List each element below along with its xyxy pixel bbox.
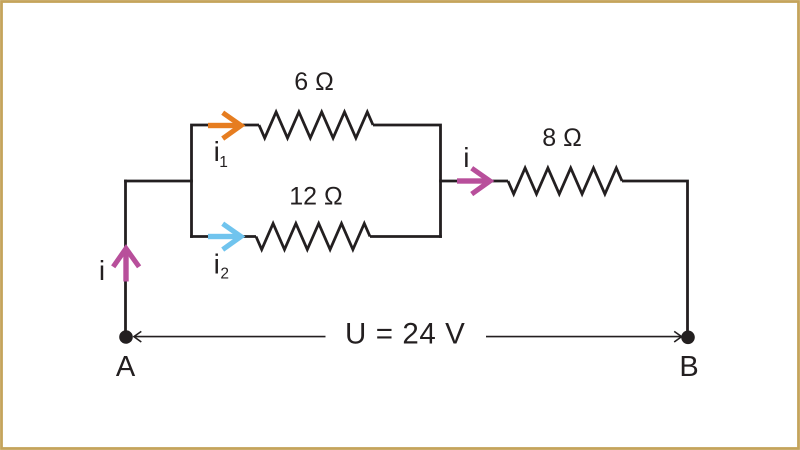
wire: left outer vertical down to node A [124, 180, 127, 336]
wire: parallel-section left vertical + top branch lead [192, 125, 260, 238]
wire: bottom branch left lead [190, 235, 256, 238]
svg-text:6 Ω: 6 Ω [294, 68, 334, 96]
svg-text:i: i [99, 255, 105, 286]
wire: left feed horizontal at mid level [124, 180, 193, 183]
wire: right lead + right outer vertical down to node B [622, 181, 688, 336]
node B dot [681, 331, 695, 345]
measurement arrow line right (to node B) [486, 331, 682, 342]
measurement arrow line left (to node A) [134, 331, 326, 342]
svg-text:i: i [463, 142, 469, 173]
current arrow i (magenta, upward) on left vertical wire [113, 249, 139, 282]
svg-text:B: B [679, 351, 698, 383]
current arrow i1 (orange) on top branch [208, 113, 241, 139]
svg-text:8 Ω: 8 Ω [542, 124, 582, 152]
svg-text:A: A [116, 351, 136, 383]
current arrow i (magenta) on mid branch [457, 168, 490, 194]
svg-text:1: 1 [219, 154, 228, 171]
wire: bottom branch right lead [370, 235, 442, 238]
svg-text:2: 2 [220, 266, 229, 283]
resistor R3 8-ohm zigzag [508, 168, 622, 194]
wire: top branch right lead + parallel-section right vertical [373, 125, 441, 238]
resistor R2 12-ohm zigzag [256, 224, 370, 250]
wire: mid branch from parallel section to 8-ohm resistor [439, 180, 508, 183]
svg-text:i: i [214, 249, 220, 280]
svg-text:U = 24 V: U = 24 V [345, 318, 465, 351]
current arrow i2 (light blue) on bottom branch [208, 224, 241, 250]
resistor R1 6-ohm zigzag [259, 112, 373, 138]
node A dot [119, 330, 133, 344]
svg-text:12 Ω: 12 Ω [289, 183, 342, 211]
